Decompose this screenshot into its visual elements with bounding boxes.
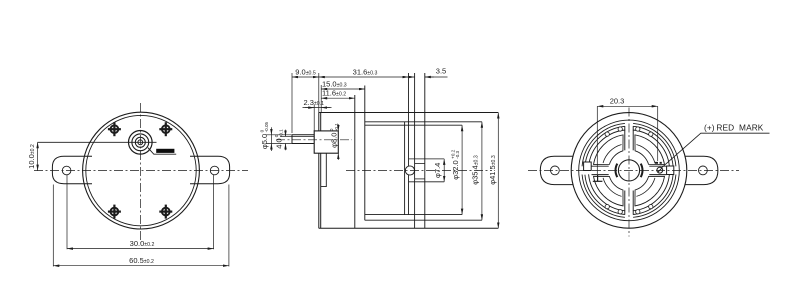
svg-text:φ8.0: φ8.0 xyxy=(330,133,339,148)
svg-text:-0.3: -0.3 xyxy=(455,150,460,158)
svg-text:-0.05: -0.05 xyxy=(264,121,269,132)
svg-text:φ5.0: φ5.0 xyxy=(260,134,269,149)
svg-text:3.5: 3.5 xyxy=(436,67,446,76)
svg-text:φ7.4: φ7.4 xyxy=(433,163,442,178)
svg-text:4.0: 4.0 xyxy=(275,138,284,148)
svg-text:-0.1: -0.1 xyxy=(279,129,284,137)
svg-text:20.3: 20.3 xyxy=(610,97,625,106)
svg-text:-0.1: -0.1 xyxy=(334,123,339,131)
svg-text:φ32.0: φ32.0 xyxy=(451,160,460,179)
svg-text:(+) RED MARK: (+) RED MARK xyxy=(704,123,764,133)
